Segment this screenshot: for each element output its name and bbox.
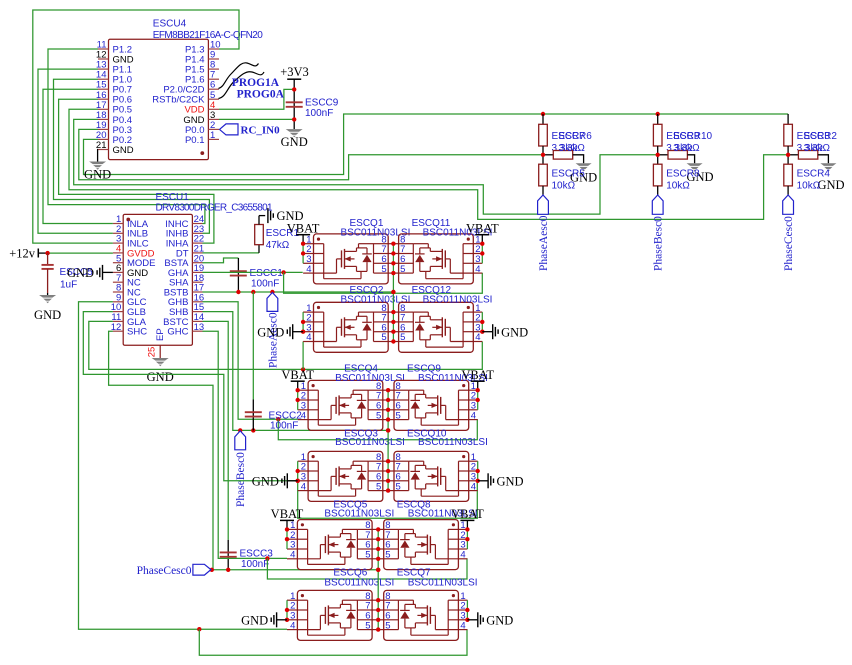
transistor ESCQ1 BSC011N03LSI (left block) — [314, 234, 389, 284]
ground symbol below ESCU1 EP — [152, 358, 169, 361]
svg-text:GND: GND — [147, 370, 174, 384]
svg-text:5: 5 — [396, 410, 401, 421]
MCU U-ESCU4 EFM8BB21F16A box — [109, 39, 209, 159]
svg-text:BSC011N03LSI: BSC011N03LSI — [335, 437, 405, 448]
svg-text:ESCR5: ESCR5 — [552, 169, 586, 180]
ESCU1 pin 4 GVDD (left) — [113, 252, 123, 254]
svg-text:4: 4 — [460, 620, 465, 631]
svg-text:GHC: GHC — [167, 327, 188, 338]
transistor ESCQ5 BSC011N03LSI (left block) — [297, 520, 372, 570]
wire MCU GND pin3 to cap — [219, 118, 294, 120]
svg-text:100nF: 100nF — [270, 421, 298, 432]
resistor ESCR3 3.3k (vertical, divider C) — [787, 114, 789, 124]
svg-text:3.3kΩ: 3.3kΩ — [804, 143, 831, 154]
wire ESCQ2 gate drop — [302, 342, 304, 370]
power flag VBAT right of ESCQ9 — [471, 380, 485, 382]
svg-text:BSC011N03LSI: BSC011N03LSI — [418, 437, 488, 448]
ESCU1 pin 6 GND (left) — [113, 271, 123, 273]
MCU pin 20 P0.2 (left) — [98, 138, 109, 140]
svg-text:4: 4 — [471, 410, 476, 421]
wire P0.7 pin15 to INLA — [43, 89, 113, 223]
ESCU1 pin 13 GHC (right) — [192, 330, 202, 332]
svg-text:P0.1: P0.1 — [185, 135, 205, 146]
svg-text:100nF: 100nF — [305, 108, 333, 119]
svg-text:4: 4 — [306, 332, 311, 343]
svg-text:4: 4 — [306, 264, 311, 275]
wire P1.3 pin10 loop to INLC — [33, 10, 239, 243]
svg-text:5: 5 — [365, 620, 370, 631]
ground flag left of ESCQ3 — [287, 480, 297, 482]
svg-text:ESCR4: ESCR4 — [797, 169, 831, 180]
svg-text:5: 5 — [381, 264, 386, 275]
capacitor ESCC1 plates — [230, 270, 247, 272]
ground symbol sideways above ESCR1 — [267, 208, 269, 223]
svg-text:PhaseCesc0: PhaseCesc0 — [137, 565, 192, 577]
wire GND column ESCQ2 — [302, 312, 304, 332]
svg-text:GND: GND — [281, 135, 308, 149]
wire GND column ESCQ10 — [477, 461, 479, 481]
svg-text:100nF: 100nF — [251, 279, 279, 290]
resistor ESCR9 3.3k (vertical, divider B) — [657, 114, 659, 124]
resistor ESCR2 3.3k (horizontal, divider C) — [788, 154, 798, 156]
svg-text:ESCC1: ESCC1 — [250, 268, 284, 279]
ESCU1 pin 12 SHC (left) — [113, 330, 123, 332]
wire GHB branch to ESCQ9 gate — [278, 419, 477, 440]
wire GHC branch to ESCQ8 gate — [267, 558, 467, 579]
svg-text:VBAT: VBAT — [281, 368, 314, 382]
capacitor ESCC2 plates — [245, 411, 262, 413]
capacitor ESCC3 plates — [220, 551, 237, 553]
ESCU1 pin 8 NC (left) — [113, 291, 123, 293]
resistor ESCR4 10k (divider C) — [787, 155, 789, 164]
svg-text:3.3kΩ: 3.3kΩ — [559, 143, 586, 154]
wire VBAT column ESCQ5 — [286, 529, 288, 549]
wire VDD to +3V3 — [219, 89, 294, 109]
svg-text:4: 4 — [301, 410, 306, 421]
svg-text:BSC011N03LSI: BSC011N03LSI — [408, 577, 478, 588]
ESCU1 pin 16 GHB (right) — [192, 301, 202, 303]
svg-text:1uF: 1uF — [60, 280, 77, 291]
wire GND column ESCQ12 — [481, 312, 483, 332]
svg-text:1: 1 — [210, 130, 215, 141]
ESCU1 pin 5 MODE (left) — [113, 262, 123, 264]
ground flag right of ESCQ10 — [478, 480, 488, 482]
svg-text:GND: GND — [486, 613, 513, 627]
svg-text:GND: GND — [501, 325, 528, 339]
ESCU1 pin 20 BSTA (right) — [192, 262, 202, 264]
power flag VBAT left of ESCQ4 — [291, 380, 305, 382]
ground symbol below ESCC9 — [286, 129, 303, 132]
svg-text:PhaseAesc0: PhaseAesc0 — [267, 312, 279, 368]
ground flag left of ESCQ6 — [277, 619, 287, 621]
ESCU1 pin 21 DT (right) — [192, 252, 202, 254]
svg-text:+3V3: +3V3 — [280, 65, 309, 79]
capacitor ESCC3 through-wire — [227, 540, 229, 570]
MCU pin 15 P0.7 (left) — [98, 88, 109, 90]
ground symbol divider B — [687, 163, 703, 166]
MCU pin 14 P1.0 (left) — [98, 78, 109, 80]
capacitor ESCC9 plates — [286, 101, 303, 103]
svg-text:5: 5 — [385, 550, 390, 561]
MCU pin 8 P1.5 (right) — [208, 68, 219, 70]
junction dots on neutral bus — [541, 112, 545, 116]
transistor ESCQ6 BSC011N03LSI (left block) — [297, 590, 372, 640]
port PhaseAesc0 pentagon (divider) — [538, 195, 549, 214]
wire P0.5 pin17 to divider C mid node — [69, 109, 788, 219]
svg-text:PhaseAesc0: PhaseAesc0 — [538, 215, 550, 271]
wire GLC branch to ESCQ7 gate — [199, 629, 467, 655]
ESCU1 pin 22 INHA (right) — [192, 242, 202, 244]
svg-text:ESCU4: ESCU4 — [153, 19, 187, 30]
port RC_IN0 on P0.0 — [220, 124, 239, 135]
ESCU1 pin 9 GLC (left) — [113, 301, 123, 303]
MCU pin 3 GND (right) — [208, 118, 219, 120]
MCU pin 19 P0.3 (left) — [98, 128, 109, 130]
svg-text:VBAT: VBAT — [466, 221, 499, 235]
svg-text:VBAT: VBAT — [451, 507, 484, 521]
wire SHB pin15 to phase B — [203, 312, 389, 431]
wire SHC pin12 to phase C — [109, 331, 213, 570]
MCU pin 1 P0.1 (right) — [208, 138, 219, 140]
ESCU1 pin 23 INHB (right) — [192, 232, 202, 234]
svg-text:4: 4 — [301, 481, 306, 492]
svg-text:5: 5 — [381, 332, 386, 343]
svg-text:5: 5 — [376, 410, 381, 421]
svg-text:10kΩ: 10kΩ — [666, 181, 690, 192]
ground symbol divider A — [576, 163, 592, 166]
svg-text:SHC: SHC — [127, 327, 147, 338]
wire BSTC pin14 to ESCC3 — [203, 321, 229, 539]
svg-text:BSC011N03LSI: BSC011N03LSI — [423, 295, 493, 306]
wire GLB pin10 to ESCQ3 gate — [83, 312, 297, 481]
svg-text:PhaseCesc0: PhaseCesc0 — [783, 216, 795, 271]
svg-text:EFM8BB21F16A-C-QFN20: EFM8BB21F16A-C-QFN20 — [153, 30, 263, 41]
svg-text:4: 4 — [290, 620, 295, 631]
ESCU1 pin 18 SHA (right) — [192, 281, 202, 283]
wire P1.2 pin11 to INHC — [48, 49, 205, 224]
svg-text:RC_IN0: RC_IN0 — [241, 125, 281, 137]
svg-text:10kΩ: 10kΩ — [797, 181, 821, 192]
svg-text:ESCR8: ESCR8 — [666, 169, 700, 180]
ground symbol below MCU — [89, 162, 106, 165]
wire phase node mid column — [377, 529, 379, 629]
wire P0.3 pin19 to divider A mid node — [79, 129, 543, 179]
ESCU1 pin 3 INLC (left) — [113, 242, 123, 244]
svg-text:PhaseBesc0: PhaseBesc0 — [235, 452, 247, 507]
ground symbol at ESCU1 pin6 GND — [103, 271, 113, 273]
svg-text:PROG1A: PROG1A — [232, 77, 280, 89]
wire ESCC2 top lead from BSTB line — [252, 292, 254, 400]
MCU pin 16 P0.6 (left) — [98, 98, 109, 100]
wire BSTB pin17 phase-A line — [203, 291, 394, 293]
svg-text:BSC011N03LSI: BSC011N03LSI — [324, 509, 394, 520]
MCU pin 2 P0.0 (right) — [208, 128, 219, 130]
svg-text:5: 5 — [385, 620, 390, 631]
ground flag right of ESCQ7 — [467, 619, 477, 621]
MCU pin 18 P0.4 (left) — [98, 118, 109, 120]
programming squiggle wire PROG0A — [219, 72, 265, 99]
gate driver U-ESCU1 DRV8300 box — [123, 214, 192, 345]
capacitor ESCC5 1uF on +12v — [47, 253, 49, 265]
wire VBAT column ESCQ9 — [477, 390, 479, 410]
svg-text:5: 5 — [396, 481, 401, 492]
svg-text:4: 4 — [460, 550, 465, 561]
ESCU1 pin 24 INHC (right) — [192, 223, 202, 225]
svg-text:GND: GND — [84, 168, 111, 182]
svg-text:4: 4 — [471, 481, 476, 492]
wire VBAT column ESCQ11 — [481, 244, 483, 264]
svg-text:4: 4 — [475, 332, 480, 343]
wire P1.0 pin14 to INHB — [54, 79, 210, 233]
wire VBAT column ESCQ4 — [297, 390, 299, 410]
ground wire MCU pin21 — [97, 150, 99, 162]
wire GND column ESCQ6 — [286, 600, 288, 620]
svg-text:ESCR10: ESCR10 — [673, 131, 712, 142]
ESCU1 pin 19 GHA (right) — [192, 271, 202, 273]
ESCU1 pin 7 NC (left) — [113, 281, 123, 283]
wire P0.4 pin18 to divider B mid node — [74, 119, 658, 214]
wire +12v to GVDD pin4 — [48, 252, 113, 254]
resistor ESCR1 47k on DT — [203, 252, 260, 254]
MCU pin 13 P1.1 (left) — [98, 68, 109, 70]
resistor ESCR10 3.3k (horizontal, divider B) — [658, 154, 668, 156]
resistor ESCR7 3.3k (vertical, divider A) — [542, 114, 544, 124]
svg-text:ESCR6: ESCR6 — [559, 131, 593, 142]
svg-text:3.3kΩ: 3.3kΩ — [673, 143, 700, 154]
svg-text:ESCR2: ESCR2 — [804, 131, 838, 142]
ESCU1 pin 2 INLB (left) — [113, 232, 123, 234]
MCU pin 6 P2.0/C2D (right) — [208, 88, 219, 90]
svg-text:PhaseBesc0: PhaseBesc0 — [653, 216, 665, 271]
wire phase node mid column — [392, 244, 394, 342]
transistor ESCQ4 BSC011N03LSI (left block) — [308, 380, 383, 430]
svg-text:GND: GND — [113, 145, 134, 156]
wire phase node mid column — [387, 390, 389, 490]
wire GLC pin9 to ESCQ6 gate — [79, 302, 288, 629]
wire GLB branch to ESCQ10 gate — [298, 481, 478, 518]
port PhaseBesc0 pentagon at phase B line — [235, 431, 246, 450]
svg-text:GND: GND — [817, 178, 844, 192]
MCU pin 12 GND (left) — [98, 58, 109, 60]
ground flag left of ESCQ2 — [293, 331, 303, 333]
port PhaseCesc0 pentagon (divider) — [783, 195, 794, 214]
svg-text:VBAT: VBAT — [287, 221, 320, 235]
wire GLA pin11 low-side A gates — [89, 321, 483, 369]
transistor ESCQ11 BSC011N03LSI (right block) — [399, 234, 474, 284]
wire GHC pin13 to ESCQ5 gate — [203, 331, 288, 558]
svg-text:GND: GND — [241, 613, 268, 627]
wire P0.6 pin16 to INHA — [59, 99, 214, 243]
wire P0.2 pin20 to neutral top bus — [84, 114, 789, 175]
svg-text:4: 4 — [475, 264, 480, 275]
MCU pin 4 VDD (right) — [208, 108, 219, 110]
svg-text:PROG0A: PROG0A — [237, 89, 285, 101]
ground symbol divider C — [820, 163, 836, 166]
transistor ESCQ2 BSC011N03LSI (left block) — [314, 302, 389, 352]
wire GHB pin16 to ESCQ4 gate — [203, 302, 298, 419]
svg-text:GND: GND — [67, 266, 94, 280]
transistor ESCQ8 BSC011N03LSI (right block) — [384, 520, 459, 570]
MCU pin 7 P1.6 (right) — [208, 78, 219, 80]
ESCU1 pin 15 SHB (right) — [192, 311, 202, 313]
transistor ESCQ3 BSC011N03LSI (left block) — [308, 451, 383, 501]
svg-text:5: 5 — [365, 550, 370, 561]
svg-text:5: 5 — [400, 332, 405, 343]
svg-text:BSC011N03LSI: BSC011N03LSI — [324, 577, 394, 588]
MCU pin 11 P1.2 (left) — [98, 48, 109, 50]
MCU pin 9 P1.4 (right) — [208, 58, 219, 60]
svg-text:+12v: +12v — [9, 246, 36, 260]
svg-text:GND: GND — [34, 308, 61, 322]
power flag +3V3 — [287, 78, 301, 80]
svg-text:100nF: 100nF — [241, 559, 269, 570]
svg-text:4: 4 — [290, 550, 295, 561]
ESCU1 pin 1 INLA (left) — [113, 223, 123, 225]
resistor ESCR6 3.3k (horizontal, divider A) — [543, 154, 553, 156]
svg-text:5: 5 — [400, 264, 405, 275]
capacitor ESCC2 through-wire — [252, 400, 254, 431]
capacitor ESCC1 through-wire — [237, 258, 239, 292]
wire phase C line — [212, 569, 378, 571]
svg-text:GND: GND — [497, 474, 524, 488]
svg-text:47kΩ: 47kΩ — [266, 240, 290, 251]
wire VBAT column ESCQ1 — [302, 244, 304, 264]
svg-text:ESCC9: ESCC9 — [305, 98, 339, 109]
power flag VBAT left of ESCQ5 — [280, 519, 294, 521]
resistor ESCR8 10k (divider B) — [657, 155, 659, 164]
wire GHA branch to ESCQ11 gate — [284, 272, 483, 293]
wire GND column ESCQ3 — [297, 461, 299, 481]
ground symbol below 1uF cap — [39, 295, 56, 298]
MCU pin 21 GND (left) — [98, 149, 109, 151]
port PhaseCesc0 pentagon — [193, 564, 211, 575]
ground flag right of ESCQ12 — [482, 331, 492, 333]
power flag VBAT right of ESCQ8 — [460, 519, 474, 521]
svg-text:DRV8300DRGER_C3655801: DRV8300DRGER_C3655801 — [156, 203, 273, 214]
wire P1.1 pin13 to INLB — [38, 69, 113, 233]
wire VBAT column ESCQ8 — [466, 529, 468, 549]
ESCU1 pin 14 BSTC (right) — [192, 320, 202, 322]
MCU pin 10 P1.3 (right) — [208, 48, 219, 50]
svg-text:5: 5 — [376, 481, 381, 492]
power flag VBAT left of ESCQ1 — [296, 234, 310, 236]
svg-text:GND: GND — [257, 325, 284, 339]
svg-text:VBAT: VBAT — [461, 368, 494, 382]
port PhaseBesc0 pentagon (divider) — [652, 195, 663, 214]
svg-text:ESCU1: ESCU1 — [156, 192, 190, 203]
wire GHA pin19 to ESCQ1 gate — [203, 271, 303, 273]
transistor ESCQ12 BSC011N03LSI (right block) — [399, 302, 474, 352]
resistor ESCR5 10k (divider A) — [542, 155, 544, 164]
wire BSTA pin20 to ESCC1 — [203, 258, 239, 263]
MCU pin 5 RSTb/C2CK (right) — [208, 98, 219, 100]
ESCU1 pin 25 EP (bottom) — [159, 345, 161, 358]
ESCU1 pin 10 GLB (left) — [113, 311, 123, 313]
wire GND column ESCQ7 — [466, 600, 468, 620]
svg-text:VBAT: VBAT — [271, 507, 304, 521]
transistor ESCQ7 BSC011N03LSI (right block) — [384, 590, 459, 640]
svg-text:EP: EP — [155, 328, 166, 341]
port PhaseAesc0 pentagon at phase A line — [267, 293, 278, 312]
MCU pin 17 P0.5 (left) — [98, 108, 109, 110]
ESCU1 pin 11 GLA (left) — [113, 320, 123, 322]
power flag VBAT right of ESCQ11 — [475, 234, 489, 236]
svg-text:25: 25 — [147, 347, 158, 358]
wire +3V3 stem / cap through-wire — [293, 79, 295, 129]
transistor ESCQ10 BSC011N03LSI (right block) — [394, 451, 469, 501]
programming squiggle wire PROG1A — [219, 63, 259, 89]
svg-text:10kΩ: 10kΩ — [552, 181, 576, 192]
ESCU1 pin 17 BSTB (right) — [192, 291, 202, 293]
svg-text:GND: GND — [252, 474, 279, 488]
transistor ESCQ9 BSC011N03LSI (right block) — [394, 380, 469, 430]
